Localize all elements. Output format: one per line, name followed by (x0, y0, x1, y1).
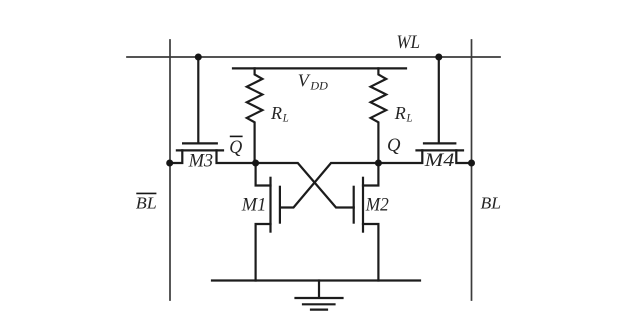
transistor M4 channel bar (417, 149, 464, 151)
wire bit line BL (right vertical) (471, 40, 473, 300)
svg-text:M1: M1 (241, 194, 266, 215)
transistor M3 (left access) gate lead from WL (197, 57, 199, 143)
svg-text:M3: M3 (188, 151, 213, 172)
svg-text:L: L (406, 111, 413, 125)
wire VDD supply rail (233, 67, 406, 69)
svg-text:Q: Q (387, 135, 401, 156)
label BLbar with overline (136, 193, 157, 212)
transistor M1 source lead to bottom rail (256, 224, 271, 281)
resistor RL (right load) (371, 68, 387, 163)
wire cross-coupling: node Qbar to M2 gate (256, 163, 354, 208)
node Q junction (375, 160, 382, 167)
svg-text:L: L (282, 111, 289, 125)
svg-text:BL: BL (136, 194, 157, 213)
transistor M4 (right access) gate lead from WL (438, 57, 440, 143)
svg-text:Q: Q (229, 137, 242, 158)
svg-text:M4: M4 (424, 150, 455, 171)
label node Qbar with overline (229, 136, 242, 157)
label RL right (394, 103, 413, 125)
svg-text:WL: WL (397, 32, 421, 53)
node Qbar junction (252, 160, 259, 167)
resistor RL (left load) (247, 68, 263, 163)
transistor M1 drain lead from node Qbar (256, 163, 271, 186)
wire word line WL (127, 56, 500, 58)
svg-text:R: R (394, 103, 406, 123)
wire bottom source rail (212, 279, 420, 281)
transistor M2 source lead to bottom rail (363, 224, 378, 281)
junction M4 drain on BL (468, 160, 475, 167)
label VDD (298, 70, 328, 92)
transistor M4 drain lead to BL (456, 150, 471, 163)
transistor M3 gate bar (183, 142, 217, 144)
transistor M1 gate bar (279, 187, 281, 223)
wire cross-coupling: node Q to M1 gate (281, 163, 378, 208)
transistor M4 gate bar (424, 142, 455, 144)
transistor M2 gate bar (353, 187, 355, 223)
junction M4 gate on WL (435, 54, 442, 61)
transistor M2 drain lead from node Q (363, 163, 378, 186)
transistor M3 drain lead to node Qbar (217, 150, 256, 163)
transistor M3 channel bar (177, 149, 223, 151)
svg-text:BL: BL (481, 194, 502, 213)
transistor M4 source lead to node Q (378, 150, 422, 163)
wire bit line BLbar (left vertical) (169, 40, 171, 300)
transistor M3 source lead to BLbar (170, 150, 183, 163)
svg-text:DD: DD (309, 78, 328, 92)
transistor M2 (right inverter) channel bar (362, 178, 364, 232)
label RL left (270, 103, 289, 125)
junction M3 source on BLbar (166, 160, 173, 167)
ground symbol (296, 281, 343, 310)
svg-text:V: V (298, 70, 311, 90)
svg-text:M2: M2 (365, 195, 389, 216)
transistor M1 (left inverter) channel bar (269, 178, 271, 232)
svg-text:R: R (270, 103, 282, 123)
junction M3 gate on WL (195, 54, 202, 61)
